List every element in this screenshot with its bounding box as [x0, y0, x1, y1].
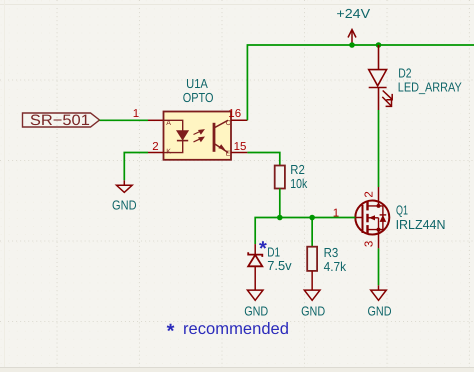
drain pin	[378, 187, 380, 206]
gate bar	[362, 205, 364, 233]
svg-text:3: 3	[364, 241, 376, 247]
svg-text:*: *	[167, 320, 175, 342]
wire Q1 source to gnd	[378, 248, 380, 285]
svg-text:SR−501: SR−501	[30, 112, 90, 129]
svg-text:2: 2	[364, 191, 376, 197]
svg-text:D1: D1	[267, 244, 280, 259]
internal wiring	[368, 206, 383, 230]
opto LED inner rect	[164, 120, 183, 152]
pin 15 stub	[231, 152, 247, 154]
power +24V	[336, 6, 370, 45]
ground (opto)	[117, 180, 133, 192]
hierarchical label SR-501	[23, 112, 100, 129]
ground (Q1)	[371, 285, 387, 300]
svg-text:15: 15	[234, 141, 247, 153]
svg-text:IRLZ44N: IRLZ44N	[396, 217, 446, 232]
svg-text:U1A: U1A	[186, 76, 208, 91]
svg-text:LED_ARRAY: LED_ARRAY	[398, 79, 462, 94]
page edge bottom	[0, 368, 474, 372]
svg-text:GND: GND	[244, 303, 268, 318]
opto LED cathode bar	[177, 140, 188, 142]
pin 2 stub	[148, 152, 164, 154]
svg-text:GND: GND	[112, 197, 137, 212]
ground (D1)	[247, 290, 263, 300]
body arrow	[369, 215, 375, 220]
svg-text:A: A	[166, 120, 171, 127]
wire pin2 to gnd	[124, 153, 148, 181]
zener D1	[248, 244, 262, 290]
body diode	[380, 215, 387, 222]
svg-text:GND: GND	[368, 303, 392, 318]
diode D2	[369, 45, 387, 110]
gate bus wire	[255, 218, 355, 245]
wire D2 to Q1 drain	[378, 110, 380, 187]
svg-text:1: 1	[133, 108, 139, 120]
opto U1A body	[164, 76, 232, 160]
opto phototransistor	[214, 120, 228, 152]
svg-text:GND: GND	[301, 303, 325, 318]
internal junction dots	[377, 204, 381, 208]
channel segments	[366, 202, 368, 234]
junction R3/bus	[309, 215, 315, 221]
wire R2 bottom	[279, 189, 281, 218]
ground (R3)	[304, 290, 320, 300]
junction D2 top	[376, 42, 382, 48]
opto LED triangle	[177, 131, 188, 140]
svg-text:R3: R3	[324, 245, 339, 260]
body circle	[355, 201, 389, 235]
wire label to pin1	[100, 119, 149, 121]
svg-text:*: *	[259, 238, 267, 260]
opto light arrows	[194, 130, 204, 142]
wire pin16 up and top rail	[247, 45, 474, 120]
svg-text:OPTO: OPTO	[183, 90, 214, 105]
svg-text:16: 16	[228, 108, 241, 120]
svg-text:D2: D2	[398, 65, 411, 80]
pin 1 stub	[148, 119, 164, 121]
svg-text:R2: R2	[290, 162, 305, 177]
junction R2/bus	[277, 215, 283, 221]
svg-text:+24V: +24V	[336, 6, 370, 21]
R3 bottom pin	[311, 271, 313, 290]
resistor R2	[275, 166, 285, 189]
pin 16 stub	[231, 119, 247, 121]
svg-text:2: 2	[152, 141, 158, 153]
svg-text:4.7k: 4.7k	[324, 259, 347, 274]
svg-text:Q1: Q1	[396, 203, 408, 218]
junction +24V	[349, 42, 355, 48]
svg-text:7.5v: 7.5v	[267, 258, 292, 273]
source pin	[378, 230, 380, 249]
resistor R3	[307, 247, 317, 271]
svg-text:10k: 10k	[290, 176, 307, 191]
wire bus to R3	[311, 218, 313, 247]
svg-text:K: K	[166, 149, 171, 156]
wire pin15 to R2	[247, 153, 279, 166]
D2 light arrows	[382, 91, 392, 107]
gate pin	[355, 217, 362, 219]
transistor Q1	[333, 187, 446, 248]
svg-text:recommended: recommended	[183, 320, 289, 338]
